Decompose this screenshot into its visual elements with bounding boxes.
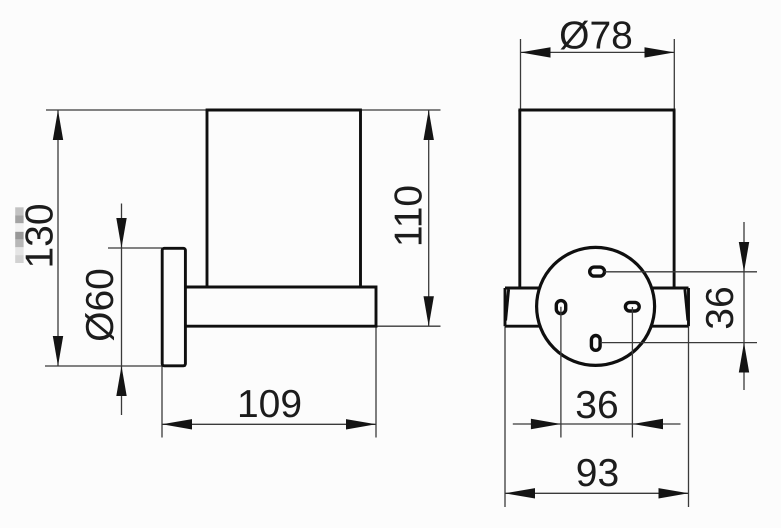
svg-text:Ø60: Ø60: [79, 268, 122, 342]
svg-text:36: 36: [699, 286, 742, 329]
svg-text:109: 109: [237, 383, 302, 426]
svg-text:130: 130: [19, 203, 62, 268]
svg-text:36: 36: [575, 384, 618, 427]
svg-text:Ø78: Ø78: [559, 15, 633, 58]
svg-text:93: 93: [576, 452, 619, 495]
svg-text:110: 110: [388, 185, 431, 247]
